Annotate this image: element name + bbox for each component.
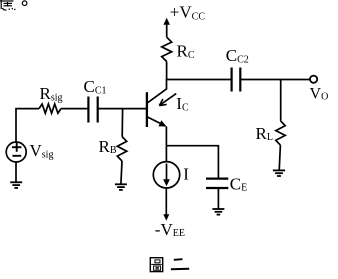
output terminal Vo xyxy=(310,76,317,83)
current arrow IC xyxy=(161,94,177,105)
caption character 二 xyxy=(171,259,189,269)
svg-text:RC: RC xyxy=(177,42,195,61)
svg-text:Rsig: Rsig xyxy=(40,84,63,104)
power +VCC arrow xyxy=(166,24,168,37)
caption character 圖 xyxy=(150,258,162,272)
wire and arrow to -VEE xyxy=(165,188,167,215)
voltage source Vsig xyxy=(6,142,26,162)
wire: RL to ground xyxy=(279,145,280,170)
resistor Rsig xyxy=(39,104,61,113)
transistor Q1 base bar xyxy=(146,92,148,127)
ground (RB) xyxy=(115,184,127,190)
ground (Vsig) xyxy=(10,182,22,188)
wire: Rsig to CC1 xyxy=(61,108,88,110)
ground (RL) xyxy=(273,170,285,176)
svg-text:+VCC: +VCC xyxy=(170,3,206,23)
ideographic full stop 。 xyxy=(22,1,27,6)
svg-text:RL: RL xyxy=(256,124,273,143)
svg-text:RB: RB xyxy=(99,137,117,156)
wire: Vsig to ground xyxy=(15,162,17,182)
svg-text:I: I xyxy=(183,164,189,183)
wire: collector rail to CC2 xyxy=(166,79,231,81)
partial character 應 (cut off at page corner) xyxy=(0,0,15,10)
transistor Q1 emitter lead with arrow xyxy=(148,117,163,125)
svg-text:CC1: CC1 xyxy=(84,77,107,97)
resistor RB xyxy=(117,137,126,162)
wire: RB to ground xyxy=(121,161,122,184)
svg-text:-VEE: -VEE xyxy=(155,220,185,239)
wire: emitter to CE xyxy=(166,146,218,178)
wire: CE to ground xyxy=(217,189,219,209)
svg-text:VO: VO xyxy=(310,85,329,102)
wire: base node to RB xyxy=(121,109,123,137)
svg-text:CC2: CC2 xyxy=(226,46,249,65)
wire: emitter node E xyxy=(165,127,167,162)
capacitor CE xyxy=(206,179,228,188)
wire: CC1 to base (node B) xyxy=(98,108,146,110)
wire: CC2 to output node xyxy=(241,79,310,81)
wire: output node to RL xyxy=(280,80,282,121)
capacitor CC1 xyxy=(88,97,97,123)
svg-text:CE: CE xyxy=(230,175,247,194)
ground (CE) xyxy=(212,209,224,215)
capacitor CC2 xyxy=(232,68,241,92)
svg-text:IC: IC xyxy=(176,94,189,114)
resistor RL xyxy=(276,121,285,145)
current source I xyxy=(153,162,179,188)
transistor Q1 collector lead xyxy=(148,80,167,103)
resistor RC xyxy=(162,37,172,61)
wire: RC to collector node xyxy=(166,62,168,81)
wire: input node to Rsig xyxy=(16,109,39,142)
svg-text:Vsig: Vsig xyxy=(30,141,54,161)
